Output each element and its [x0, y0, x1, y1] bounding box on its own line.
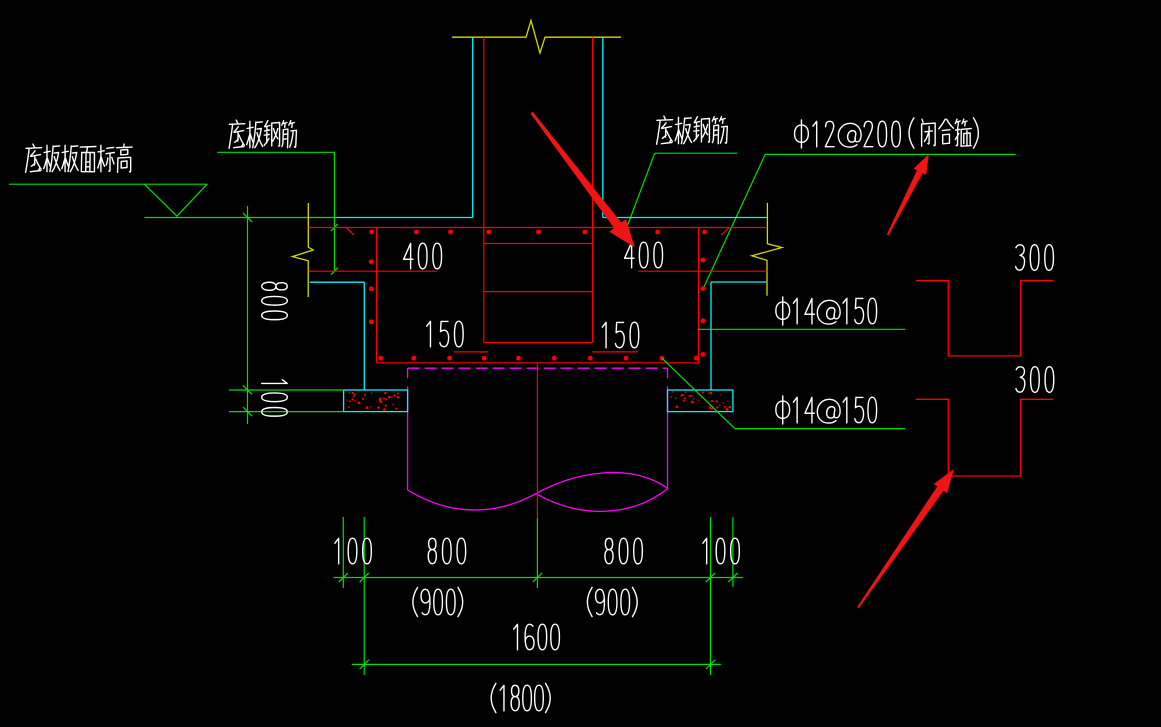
extension line cushion right — [732, 517, 734, 587]
left dim tick bottom — [243, 407, 252, 416]
lap bar under right 150 — [592, 351, 638, 353]
label 底板钢筋 left — [229, 120, 296, 148]
slab right break line (yellow) — [752, 203, 782, 296]
dim2 tick 2 — [706, 660, 715, 669]
left cushion outline (cyan) — [344, 390, 408, 412]
stirrup detail 1 (red) — [916, 281, 1053, 356]
stirrup leader diagonal — [703, 154, 765, 289]
dim text 800 bottom-left — [428, 538, 465, 564]
column tie line 2 — [484, 291, 593, 293]
label fullwidth close paren — [973, 118, 978, 148]
slab top rebar dots — [369, 230, 707, 235]
pile top (magenta dashed) — [408, 367, 668, 369]
footing left side rebar dots — [369, 259, 374, 324]
column tie line 3 — [484, 342, 593, 344]
dim text 300 upper — [1016, 245, 1054, 271]
annotation arrow 1 — [531, 112, 635, 248]
elevation leader line — [9, 183, 207, 185]
left dim tick top — [243, 213, 252, 222]
leader tick at bottom rebar — [331, 268, 338, 275]
label Φ12@200 — [795, 120, 901, 148]
left cushion hatch specks — [346, 392, 399, 411]
dim1 tick 3 — [533, 573, 542, 582]
pile centerline (red) — [536, 363, 538, 518]
dim1 tick 1 — [339, 573, 348, 582]
top rebar right hook — [721, 228, 728, 235]
footing cage right (red) — [698, 228, 700, 363]
column left edge (cyan) — [472, 37, 474, 217]
top rebar left hook — [346, 228, 354, 235]
dim text 100 bottom-left — [335, 538, 371, 564]
extension line footing right — [710, 517, 712, 675]
label Φ14@150 upper — [776, 297, 877, 325]
dim text 100 bottom-right — [703, 538, 739, 564]
column break line (yellow zigzag) — [452, 21, 621, 54]
right cushion hatch specks — [670, 391, 731, 411]
label Φ14@150 lower — [776, 396, 877, 424]
dim2 tick 1 — [360, 660, 369, 669]
footing concrete right edge (cyan) — [710, 282, 712, 390]
leader diagonal right — [626, 153, 654, 228]
left dim tick mid — [243, 385, 252, 394]
left dim line vertical — [247, 206, 249, 424]
dim1 tick 4 — [706, 573, 715, 582]
label 闭合箍 chars — [922, 119, 972, 146]
column tie line 1 — [484, 243, 593, 245]
extension line footing left — [363, 517, 365, 675]
right cushion outline (cyan) — [668, 390, 733, 412]
leader underline left — [217, 151, 334, 153]
extension line cushion left — [342, 517, 344, 588]
dim text 100 (rotated) — [262, 380, 288, 416]
slab bottom rebar right (red) — [638, 270, 767, 272]
slab top concrete left (cyan) — [337, 217, 473, 219]
stirrup leader line — [765, 153, 1015, 155]
dim text 400 left — [404, 243, 442, 269]
leader line lower — [735, 428, 906, 430]
slab bottom concrete left (cyan) — [310, 281, 365, 283]
lap bar under left 150 — [454, 351, 489, 353]
dim text 300 lower — [1016, 367, 1054, 393]
pile left side (magenta) — [407, 368, 409, 490]
dim text 1600 — [514, 624, 560, 650]
label 底板板面标高 — [26, 144, 133, 172]
footing right side rebar dots — [701, 258, 706, 357]
extension line center — [536, 518, 538, 588]
leader underline right — [655, 152, 737, 154]
elevation triangle — [144, 184, 207, 216]
column left rebar (red) — [483, 37, 485, 342]
dim1 tick 5 — [728, 573, 737, 582]
dim text (900) left — [413, 587, 463, 616]
dim text 400 right — [625, 242, 663, 268]
leader line upper — [698, 328, 906, 330]
pile break curve A — [408, 473, 668, 510]
slab left break line (yellow) — [293, 203, 314, 297]
footing concrete left edge (cyan) — [363, 282, 365, 390]
stirrup detail 2 (red) — [916, 399, 1053, 476]
dim line 1 — [334, 577, 743, 579]
leader tick at top rebar — [331, 224, 338, 231]
dim text 800 bottom-right — [605, 538, 642, 564]
dim line 2 — [352, 663, 721, 665]
cushion bottom extension line — [229, 411, 344, 413]
dim text (1800) — [491, 683, 550, 712]
label 底板钢筋 right — [657, 116, 728, 144]
footing bottom rebar dots — [378, 356, 698, 361]
dim1 tick 2 — [360, 573, 369, 582]
dim text 150 right — [602, 322, 638, 348]
annotation arrow 3 — [857, 469, 954, 608]
slab top concrete right (cyan) — [603, 217, 767, 219]
slab bottom rebar left (red) — [309, 270, 437, 272]
dim text 150 left — [427, 321, 463, 347]
slab top rebar (red) — [309, 227, 768, 229]
level line — [144, 217, 337, 219]
pile right side (magenta) — [667, 368, 669, 488]
dim text (900) right — [587, 587, 637, 616]
label fullwidth open paren — [909, 118, 914, 148]
annotation arrow 2 — [887, 154, 929, 235]
column right rebar (red) — [592, 37, 594, 342]
column right edge (cyan) — [602, 37, 604, 217]
footing cage bottom (red) — [377, 362, 699, 364]
leader vertical left — [333, 152, 335, 271]
dim text 800 (rotated) — [262, 282, 288, 319]
slab bottom concrete right (cyan) — [711, 281, 767, 283]
cushion top extension line — [229, 389, 344, 391]
leader diagonal lower — [662, 358, 735, 428]
pile break curve B — [536, 489, 668, 512]
footing cage left (red) — [376, 228, 378, 363]
